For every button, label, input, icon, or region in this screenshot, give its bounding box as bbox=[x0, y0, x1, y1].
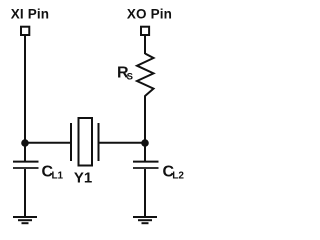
wire XI vertical bbox=[24, 36, 26, 162]
wire left horizontal to crystal bbox=[25, 142, 70, 144]
capacitor CL1 bbox=[13, 162, 39, 168]
wire resistor to node B bbox=[144, 96, 146, 162]
svg-text:CL2: CL2 bbox=[163, 164, 185, 182]
wire CL1 to ground bbox=[24, 169, 26, 217]
ground right bbox=[133, 217, 157, 223]
pin XI terminal bbox=[21, 27, 29, 35]
crystal Y1 bbox=[71, 118, 99, 166]
svg-text:XI Pin: XI Pin bbox=[11, 6, 49, 21]
resistor RS bbox=[137, 54, 154, 97]
wire right horizontal from crystal bbox=[99, 142, 145, 144]
node A junction dot left bbox=[21, 139, 29, 147]
svg-text:XO Pin: XO Pin bbox=[127, 6, 172, 21]
svg-text:RS: RS bbox=[117, 65, 133, 83]
wire XO to resistor bbox=[144, 36, 146, 54]
capacitor CL2 bbox=[133, 162, 159, 168]
ground left bbox=[13, 217, 37, 223]
svg-text:CL1: CL1 bbox=[42, 164, 64, 182]
wire CL2 to ground bbox=[144, 169, 146, 217]
node B junction dot right bbox=[141, 139, 149, 147]
svg-text:Y1: Y1 bbox=[74, 170, 92, 187]
pin XO terminal bbox=[141, 27, 149, 35]
